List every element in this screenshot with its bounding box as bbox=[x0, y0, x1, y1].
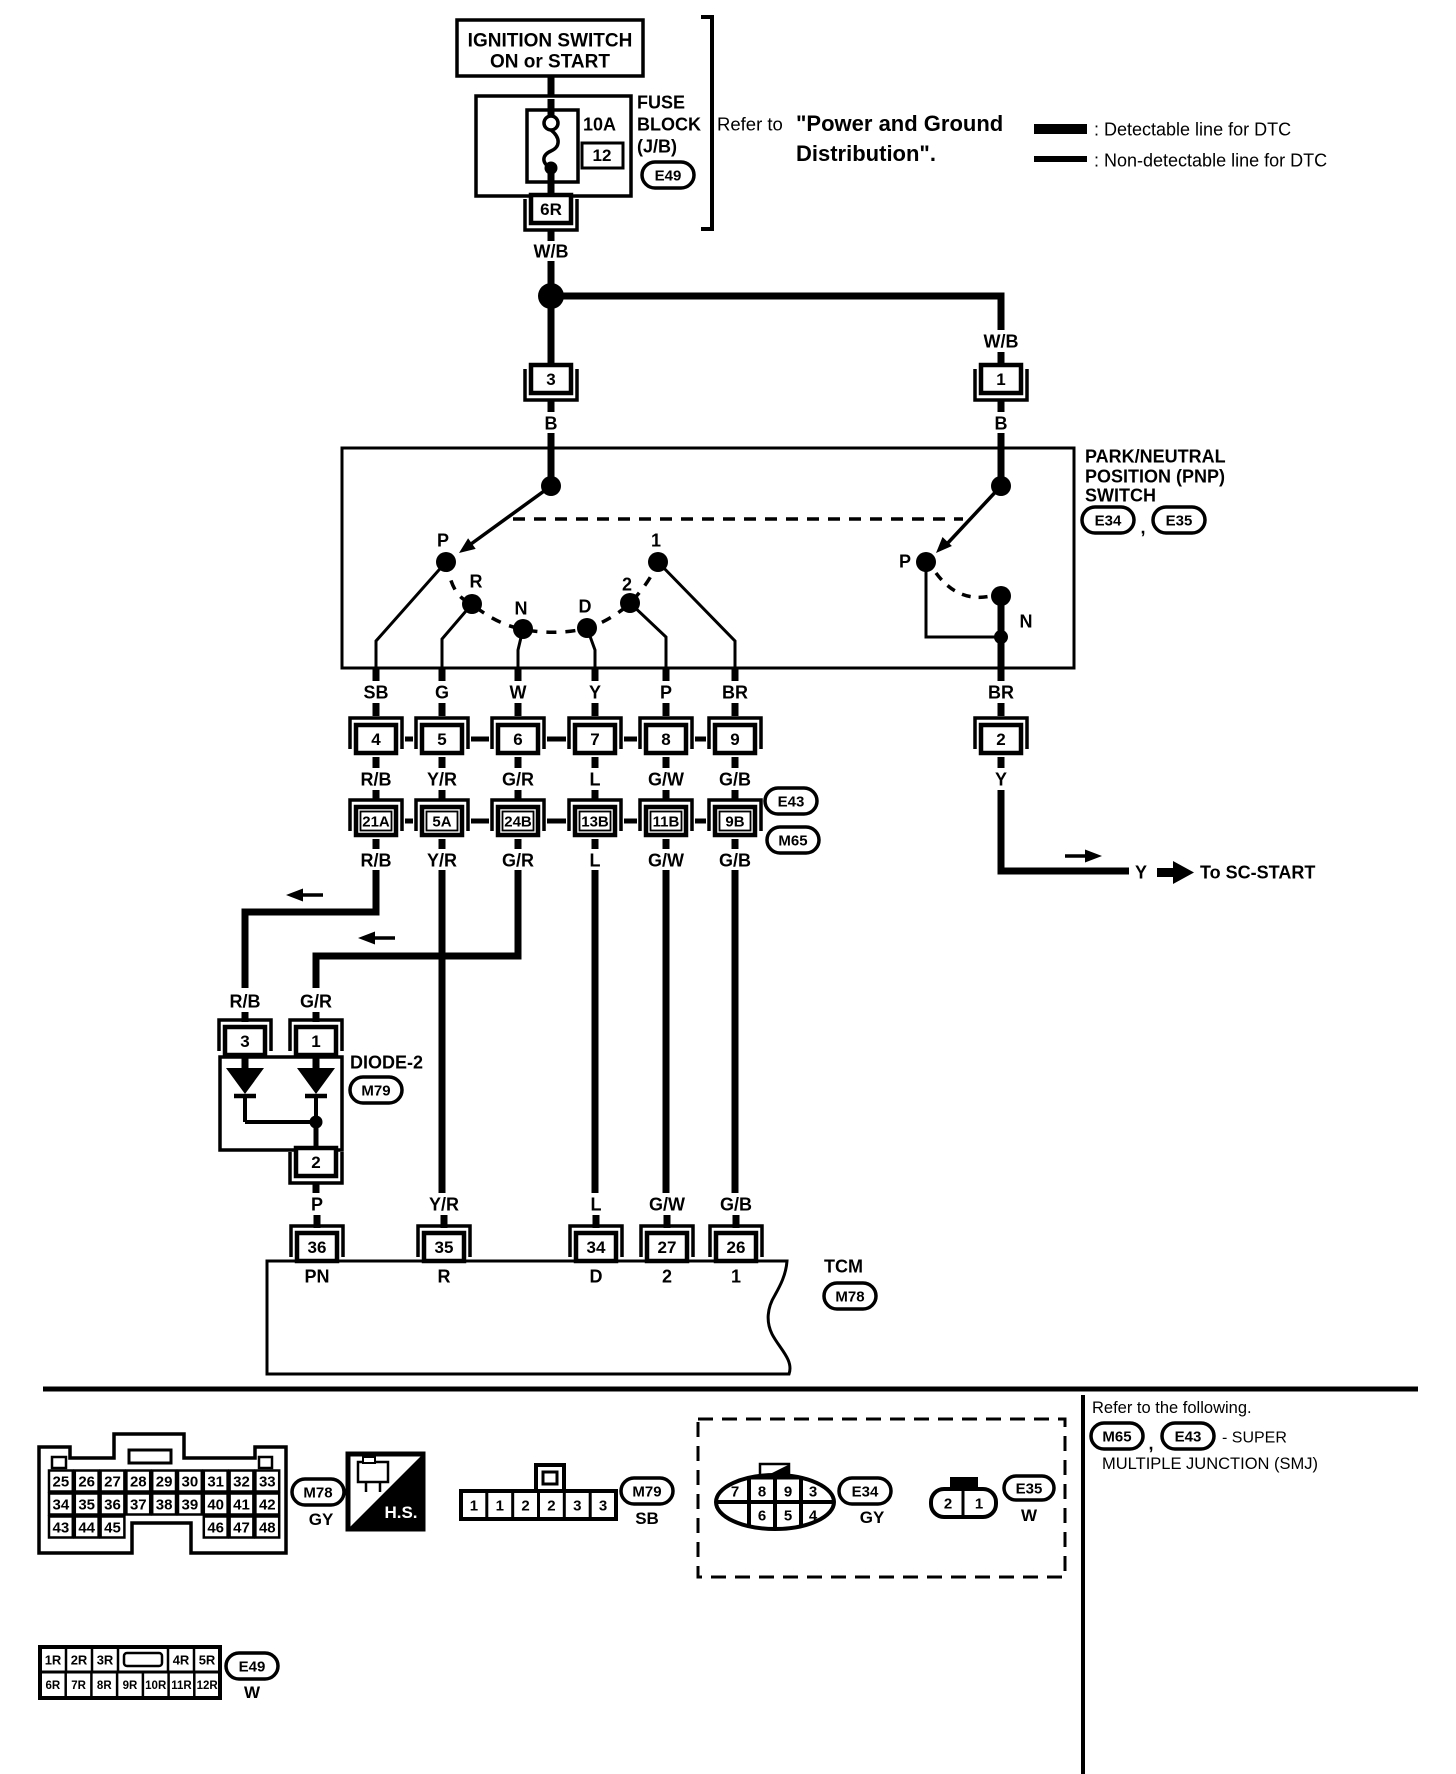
TCM connector 34 bbox=[570, 1226, 622, 1261]
svg-text:1: 1 bbox=[731, 1266, 741, 1286]
diode connector 1 bbox=[290, 1020, 342, 1055]
dash between SMJ connectors bbox=[471, 819, 489, 824]
svg-text:2: 2 bbox=[521, 1497, 529, 1514]
diode connector 2 bbox=[290, 1148, 342, 1183]
connector E43 oval bbox=[765, 788, 817, 814]
svg-text:PN: PN bbox=[304, 1266, 329, 1286]
svg-text:6: 6 bbox=[758, 1507, 766, 1524]
wire into right switch common bbox=[998, 450, 1005, 480]
svg-text:2: 2 bbox=[996, 730, 1005, 749]
connector 3 (PNP switch left) bbox=[525, 365, 577, 400]
svg-text:GY: GY bbox=[860, 1508, 885, 1527]
legend: detectable line for DTC bbox=[1034, 119, 1291, 139]
svg-text:2: 2 bbox=[944, 1495, 952, 1512]
svg-text:G/R: G/R bbox=[502, 769, 534, 789]
svg-text:4R: 4R bbox=[173, 1653, 190, 1668]
svg-text:32: 32 bbox=[233, 1473, 250, 1490]
svg-text:E49: E49 bbox=[655, 167, 682, 184]
diode-2 box bbox=[220, 1057, 342, 1150]
E34 oval footnote bbox=[839, 1478, 891, 1527]
left switch arm with arrow bbox=[459, 486, 551, 553]
dashed contact arc bbox=[446, 562, 658, 632]
svg-text:46: 46 bbox=[207, 1519, 224, 1536]
connector M65 oval bbox=[767, 827, 819, 853]
dashed arc P to N right switch bbox=[936, 573, 991, 597]
connector 9B (SMJ) bbox=[709, 800, 761, 835]
svg-text:38: 38 bbox=[156, 1496, 173, 1513]
svg-text:3R: 3R bbox=[97, 1653, 114, 1668]
dash between connectors bbox=[405, 737, 413, 742]
connector 6R (fuse block output) bbox=[525, 195, 577, 230]
right switch common node bbox=[991, 476, 1011, 496]
dash between SMJ connectors bbox=[405, 819, 413, 824]
svg-text:Distribution".: Distribution". bbox=[796, 141, 936, 166]
svg-text:BR: BR bbox=[722, 682, 748, 702]
svg-text:1: 1 bbox=[470, 1497, 478, 1514]
svg-text:"Power and Ground: "Power and Ground bbox=[796, 111, 1003, 136]
dash between SMJ connectors bbox=[624, 819, 637, 824]
svg-text:Y: Y bbox=[589, 682, 601, 702]
svg-text:5A: 5A bbox=[432, 813, 451, 830]
svg-text:M78: M78 bbox=[303, 1484, 332, 1501]
wire G/R branch to diode pin 1 bbox=[316, 870, 518, 988]
svg-text:9B: 9B bbox=[725, 813, 744, 830]
svg-text:33: 33 bbox=[259, 1473, 276, 1490]
svg-text:1: 1 bbox=[975, 1495, 983, 1512]
wire stub SB below PNP box bbox=[373, 668, 380, 681]
svg-text:E34: E34 bbox=[852, 1483, 879, 1500]
svg-text:P: P bbox=[437, 530, 449, 550]
svg-text:48: 48 bbox=[259, 1519, 276, 1536]
svg-text:36: 36 bbox=[308, 1238, 327, 1257]
svg-text:2: 2 bbox=[311, 1153, 320, 1172]
wire Y to SC-START bbox=[1001, 790, 1129, 871]
svg-text:M65: M65 bbox=[778, 832, 807, 849]
svg-text:M79: M79 bbox=[632, 1483, 661, 1500]
svg-text:SB: SB bbox=[363, 682, 388, 702]
svg-text:41: 41 bbox=[233, 1496, 250, 1513]
TCM connector 35 bbox=[418, 1226, 470, 1261]
wire stub below connector to label Y/R bbox=[439, 757, 446, 768]
svg-text:45: 45 bbox=[104, 1519, 121, 1536]
svg-text:E35: E35 bbox=[1016, 1480, 1043, 1497]
wire from ignition switch to fuse block bbox=[548, 76, 555, 99]
wire W/B to connector 1 bbox=[998, 352, 1005, 368]
connector 13B (SMJ) bbox=[569, 800, 621, 835]
wire L long run bbox=[592, 870, 599, 1193]
svg-text:D: D bbox=[579, 596, 592, 616]
svg-text:44: 44 bbox=[78, 1519, 95, 1536]
wire stub to TCM connector 36 bbox=[314, 1215, 321, 1228]
wire stub below SMJ connector to label G/W bbox=[663, 839, 670, 849]
M78 connector face (TCM) bbox=[39, 1434, 286, 1553]
svg-text:9R: 9R bbox=[123, 1680, 138, 1692]
svg-text:,: , bbox=[1140, 517, 1145, 537]
svg-text:25: 25 bbox=[53, 1473, 70, 1490]
contact 1 bbox=[648, 552, 668, 572]
svg-text:6R: 6R bbox=[540, 200, 562, 219]
svg-text:E35: E35 bbox=[1166, 512, 1193, 529]
label PARK/NEUTRAL POSITION (PNP) SWITCH bbox=[1085, 446, 1226, 505]
svg-text:3: 3 bbox=[809, 1483, 817, 1500]
wire stub below connector to label G/W bbox=[663, 757, 670, 768]
vertical divider bbox=[1081, 1395, 1085, 1774]
svg-text:8R: 8R bbox=[97, 1680, 112, 1692]
svg-text:30: 30 bbox=[182, 1473, 199, 1490]
M79 connector face (diode) bbox=[461, 1465, 616, 1519]
svg-text:Refer to the following.: Refer to the following. bbox=[1092, 1399, 1252, 1417]
svg-text:6R: 6R bbox=[46, 1680, 61, 1692]
svg-text:39: 39 bbox=[182, 1496, 199, 1513]
connector E34 oval label bbox=[1082, 507, 1134, 533]
wire stub below SMJ connector to label G/R bbox=[515, 839, 522, 849]
svg-text:E34: E34 bbox=[1095, 512, 1122, 529]
svg-text:R: R bbox=[438, 1266, 451, 1286]
wire Y/R to SMJ connector bbox=[439, 790, 446, 801]
svg-text:G/B: G/B bbox=[720, 1194, 752, 1214]
svg-text:2: 2 bbox=[547, 1497, 555, 1514]
svg-text:2: 2 bbox=[662, 1266, 672, 1286]
wire stub W below PNP box bbox=[515, 668, 522, 681]
diode D2 (right) bbox=[297, 1055, 335, 1122]
svg-text:3: 3 bbox=[546, 370, 555, 389]
svg-text:Y: Y bbox=[995, 769, 1007, 789]
wire contact D to Y exit bbox=[587, 628, 595, 668]
svg-text:1R: 1R bbox=[45, 1653, 62, 1668]
mechanical link dashed line bbox=[513, 517, 963, 521]
wire stub below connector to label L bbox=[592, 757, 599, 768]
wire SB to connector bbox=[373, 703, 380, 716]
svg-text:R: R bbox=[470, 571, 483, 591]
svg-text:43: 43 bbox=[53, 1519, 70, 1536]
connector 5A (SMJ) bbox=[416, 800, 468, 835]
connector E43 oval footnote bbox=[1162, 1423, 1214, 1449]
svg-text:11R: 11R bbox=[171, 1680, 192, 1692]
svg-text:35: 35 bbox=[78, 1496, 95, 1513]
svg-text:ON or START: ON or START bbox=[490, 52, 610, 73]
svg-text:M79: M79 bbox=[361, 1082, 390, 1099]
wire stub below SMJ connector to label R/B bbox=[373, 839, 380, 849]
connector 9 (PNP switch harness) bbox=[709, 718, 761, 753]
left switch common node bbox=[541, 476, 561, 496]
svg-text:H.S.: H.S. bbox=[384, 1503, 417, 1522]
svg-text:11B: 11B bbox=[653, 813, 680, 830]
svg-text:P: P bbox=[899, 551, 911, 571]
svg-text:21A: 21A bbox=[362, 813, 390, 830]
svg-text:28: 28 bbox=[130, 1473, 147, 1490]
wire B into PNP box right bbox=[998, 433, 1005, 450]
fuse block label bbox=[637, 92, 701, 156]
svg-text:W: W bbox=[510, 682, 527, 702]
svg-text:: Detectable line for DTC: : Detectable line for DTC bbox=[1094, 119, 1291, 139]
wire stub below connector to label R/B bbox=[373, 757, 380, 768]
wire stub Y below PNP box bbox=[592, 668, 599, 681]
wire G/R to SMJ connector bbox=[515, 790, 522, 801]
svg-text:G/W: G/W bbox=[648, 850, 684, 870]
connector 5 (PNP switch harness) bbox=[416, 718, 468, 753]
diode connector 3 bbox=[219, 1020, 271, 1055]
svg-text:40: 40 bbox=[207, 1496, 224, 1513]
wire right P down and across bbox=[926, 562, 996, 637]
svg-text:13B: 13B bbox=[581, 813, 609, 830]
connector M79 oval bbox=[350, 1077, 402, 1103]
dash between connectors bbox=[471, 737, 489, 742]
contact N bbox=[513, 619, 533, 639]
svg-text:2: 2 bbox=[622, 574, 632, 594]
wire stub BR right below PNP box bbox=[998, 668, 1005, 681]
wire R/B branch to diode pin 3 bbox=[245, 870, 376, 988]
TCM connector 27 bbox=[641, 1226, 693, 1261]
svg-text:34: 34 bbox=[587, 1238, 606, 1257]
H.S. logo bbox=[348, 1454, 423, 1529]
svg-text:: Non-detectable line for DTC: : Non-detectable line for DTC bbox=[1094, 150, 1327, 170]
wire stub to TCM connector 34 bbox=[593, 1215, 600, 1228]
separator line bbox=[43, 1387, 1418, 1392]
svg-text:W/B: W/B bbox=[534, 241, 569, 261]
svg-text:L: L bbox=[590, 850, 601, 870]
svg-text:N: N bbox=[515, 598, 528, 618]
big arrow to SC-START bbox=[1157, 868, 1173, 877]
wire G/B long run bbox=[732, 870, 739, 1193]
svg-text:M78: M78 bbox=[835, 1288, 864, 1305]
connector 4 (PNP switch harness) bbox=[350, 718, 402, 753]
TCM connector 26 bbox=[710, 1226, 762, 1261]
svg-text:(J/B): (J/B) bbox=[637, 136, 677, 156]
svg-text:To SC-START: To SC-START bbox=[1200, 862, 1315, 882]
wire stub below diode connector 2 bbox=[313, 1182, 320, 1193]
svg-text:G/B: G/B bbox=[719, 769, 751, 789]
svg-text:B: B bbox=[545, 413, 558, 433]
svg-text:3: 3 bbox=[599, 1497, 607, 1514]
connector 8 (PNP switch harness) bbox=[640, 718, 692, 753]
wire contact R to G exit bbox=[442, 604, 472, 668]
wire contact 1 to BR exit bbox=[658, 562, 735, 668]
svg-text:Y: Y bbox=[1135, 862, 1147, 882]
contact R bbox=[462, 594, 482, 614]
svg-text:8: 8 bbox=[661, 730, 670, 749]
svg-text:,: , bbox=[1148, 1433, 1153, 1453]
wire G/W long run bbox=[663, 870, 670, 1193]
svg-text:P: P bbox=[660, 682, 672, 702]
svg-text:W/B: W/B bbox=[984, 331, 1019, 351]
connector M78 oval bbox=[824, 1283, 876, 1309]
right switch arm with arrow bbox=[936, 486, 1001, 553]
svg-text:E43: E43 bbox=[778, 793, 805, 810]
svg-text:G: G bbox=[435, 682, 449, 702]
connector M65 oval footnote bbox=[1091, 1423, 1143, 1449]
legend: non-detectable line for DTC bbox=[1034, 150, 1327, 170]
svg-text:4: 4 bbox=[371, 730, 381, 749]
svg-text:BLOCK: BLOCK bbox=[637, 114, 701, 134]
svg-text:35: 35 bbox=[435, 1238, 454, 1257]
connector 11B (SMJ) bbox=[640, 800, 692, 835]
svg-text:G/B: G/B bbox=[719, 850, 751, 870]
svg-text:5: 5 bbox=[437, 730, 446, 749]
svg-text:R/B: R/B bbox=[230, 991, 261, 1011]
svg-text:2R: 2R bbox=[71, 1653, 88, 1668]
svg-text:GY: GY bbox=[309, 1510, 334, 1529]
wire diode junction to pin 2 bbox=[314, 1122, 319, 1152]
svg-text:36: 36 bbox=[104, 1496, 121, 1513]
svg-text:MULTIPLE JUNCTION (SMJ): MULTIPLE JUNCTION (SMJ) bbox=[1102, 1455, 1318, 1473]
svg-text:7R: 7R bbox=[71, 1680, 86, 1692]
svg-text:D: D bbox=[590, 1266, 603, 1286]
ignition switch box bbox=[457, 20, 643, 76]
wire stub below SMJ connector to label Y/R bbox=[439, 839, 446, 849]
svg-text:G/W: G/W bbox=[648, 769, 684, 789]
wire stub below connector to label G/B bbox=[732, 757, 739, 768]
small arrow left on R/B branch bbox=[303, 893, 323, 897]
connector 1 (PNP switch right) bbox=[975, 365, 1027, 400]
svg-text:SB: SB bbox=[635, 1509, 659, 1528]
wire R/B to SMJ connector bbox=[373, 790, 380, 801]
wire stub below SMJ connector to label G/B bbox=[732, 839, 739, 849]
diode output junction bbox=[310, 1116, 323, 1129]
svg-text:L: L bbox=[591, 1194, 602, 1214]
wire stub below connector 1 bbox=[998, 399, 1005, 412]
svg-text:R/B: R/B bbox=[361, 769, 392, 789]
svg-text:R/B: R/B bbox=[361, 850, 392, 870]
wire stub below connector to label G/R bbox=[515, 757, 522, 768]
svg-text:POSITION (PNP): POSITION (PNP) bbox=[1085, 466, 1225, 486]
wire stub G below PNP box bbox=[439, 668, 446, 681]
svg-text:- SUPER: - SUPER bbox=[1222, 1430, 1287, 1447]
TCM box bbox=[267, 1261, 790, 1374]
E35 connector face bbox=[931, 1477, 996, 1517]
svg-text:Y/R: Y/R bbox=[427, 850, 457, 870]
fuse symbol bbox=[544, 99, 558, 197]
svg-text:42: 42 bbox=[259, 1496, 276, 1513]
svg-text:27: 27 bbox=[104, 1473, 121, 1490]
svg-text:L: L bbox=[590, 769, 601, 789]
svg-text:G/W: G/W bbox=[649, 1194, 685, 1214]
svg-text:26: 26 bbox=[78, 1473, 95, 1490]
fuse 10A box bbox=[527, 110, 578, 182]
svg-text:N: N bbox=[1020, 611, 1033, 631]
wire L to SMJ connector bbox=[592, 790, 599, 801]
small arrow left on G/R branch bbox=[375, 936, 395, 940]
wire stub below SMJ connector to label L bbox=[592, 839, 599, 849]
wire stub BR below PNP box bbox=[732, 668, 739, 681]
svg-text:PARK/NEUTRAL: PARK/NEUTRAL bbox=[1085, 446, 1226, 466]
svg-text:12R: 12R bbox=[197, 1680, 219, 1692]
wire contact N to W exit bbox=[518, 629, 523, 668]
dash between SMJ connectors bbox=[695, 819, 706, 824]
svg-text:7: 7 bbox=[731, 1483, 739, 1500]
contact D bbox=[577, 618, 597, 638]
wire W/B down to junction bbox=[548, 261, 555, 291]
wire stub to TCM connector 26 bbox=[733, 1215, 740, 1228]
E35 oval footnote bbox=[1004, 1476, 1054, 1525]
wire stub P below PNP box bbox=[663, 668, 670, 681]
connector 2 (right, E35) bbox=[975, 718, 1027, 753]
svg-text:B: B bbox=[995, 413, 1008, 433]
wire G/B to SMJ connector bbox=[732, 790, 739, 801]
wire right N to BR exit bbox=[998, 596, 1005, 670]
wire stub below connector 2 bbox=[998, 757, 1005, 768]
svg-text:IGNITION SWITCH: IGNITION SWITCH bbox=[468, 31, 633, 52]
svg-text:Y/R: Y/R bbox=[427, 769, 457, 789]
svg-text:E43: E43 bbox=[1175, 1428, 1202, 1445]
svg-text:24B: 24B bbox=[504, 813, 532, 830]
wire contact P to SB exit bbox=[376, 562, 446, 668]
E49 oval footnote bbox=[226, 1653, 278, 1702]
svg-text:31: 31 bbox=[207, 1473, 224, 1490]
wire stub to TCM connector 27 bbox=[664, 1215, 671, 1228]
PNP switch box bbox=[342, 448, 1074, 668]
E34 connector face bbox=[716, 1464, 834, 1529]
wire from junction to connector 3 bbox=[548, 296, 555, 368]
svg-text:W: W bbox=[1021, 1506, 1038, 1525]
svg-text:9: 9 bbox=[784, 1483, 792, 1500]
right contact N bbox=[991, 586, 1011, 606]
fuse block outer box (J/B) bbox=[476, 96, 631, 196]
wire BR to connector bbox=[732, 703, 739, 716]
wire BR to connector 2 bbox=[998, 703, 1005, 716]
dash between SMJ connectors bbox=[547, 819, 566, 824]
diode D1 (left) bbox=[226, 1055, 264, 1122]
junction at right N bottom bbox=[994, 630, 1008, 644]
wire G to connector bbox=[439, 703, 446, 716]
wire joining diode cathodes bbox=[245, 1120, 316, 1124]
svg-text:5: 5 bbox=[784, 1507, 792, 1524]
svg-text:M65: M65 bbox=[1102, 1428, 1131, 1445]
wire stub to diode connector 1 bbox=[313, 1012, 320, 1022]
wire B into PNP box left bbox=[548, 433, 555, 450]
connector E35 oval label bbox=[1153, 507, 1205, 533]
dashed box around E34 E35 bbox=[698, 1419, 1065, 1577]
svg-text:10R: 10R bbox=[145, 1680, 167, 1692]
svg-text:1: 1 bbox=[496, 1497, 504, 1514]
svg-text:1: 1 bbox=[311, 1032, 320, 1051]
svg-text:8: 8 bbox=[758, 1483, 766, 1500]
wire G/W to SMJ connector bbox=[663, 790, 670, 801]
svg-text:3: 3 bbox=[573, 1497, 581, 1514]
svg-text:6: 6 bbox=[513, 730, 522, 749]
svg-text:29: 29 bbox=[156, 1473, 173, 1490]
svg-text:1: 1 bbox=[996, 370, 1005, 389]
svg-text:P: P bbox=[311, 1194, 323, 1214]
bracket for refer note bbox=[701, 17, 712, 229]
svg-text:47: 47 bbox=[233, 1519, 250, 1536]
small arrow right on Y wire bbox=[1065, 854, 1085, 858]
svg-text:26: 26 bbox=[727, 1238, 746, 1257]
svg-text:Y/R: Y/R bbox=[429, 1194, 459, 1214]
svg-text:10A: 10A bbox=[583, 114, 616, 134]
svg-text:5R: 5R bbox=[199, 1653, 216, 1668]
wire stub to diode connector 3 bbox=[242, 1012, 249, 1022]
wire stub below connector 3 bbox=[548, 399, 555, 412]
connector 21A (SMJ) bbox=[350, 800, 402, 835]
wire stub to TCM connector 35 bbox=[441, 1215, 448, 1228]
wire contact 2 to P exit bbox=[630, 603, 666, 668]
svg-text:12: 12 bbox=[593, 146, 612, 165]
svg-text:37: 37 bbox=[130, 1496, 147, 1513]
M79 oval footnote bbox=[621, 1478, 673, 1528]
svg-text:7: 7 bbox=[590, 730, 599, 749]
svg-text:SWITCH: SWITCH bbox=[1085, 485, 1156, 505]
junction node bbox=[538, 283, 564, 309]
svg-text:4: 4 bbox=[809, 1507, 818, 1524]
fuse number 12 box bbox=[582, 143, 623, 168]
right contact P bbox=[916, 552, 936, 572]
svg-text:TCM: TCM bbox=[824, 1256, 863, 1276]
M78 oval footnote bbox=[292, 1479, 344, 1529]
connector 24B (SMJ) bbox=[492, 800, 544, 835]
wire into left switch common bbox=[548, 450, 555, 480]
wire Y/R long run bbox=[439, 870, 446, 1193]
svg-text:27: 27 bbox=[658, 1238, 677, 1257]
